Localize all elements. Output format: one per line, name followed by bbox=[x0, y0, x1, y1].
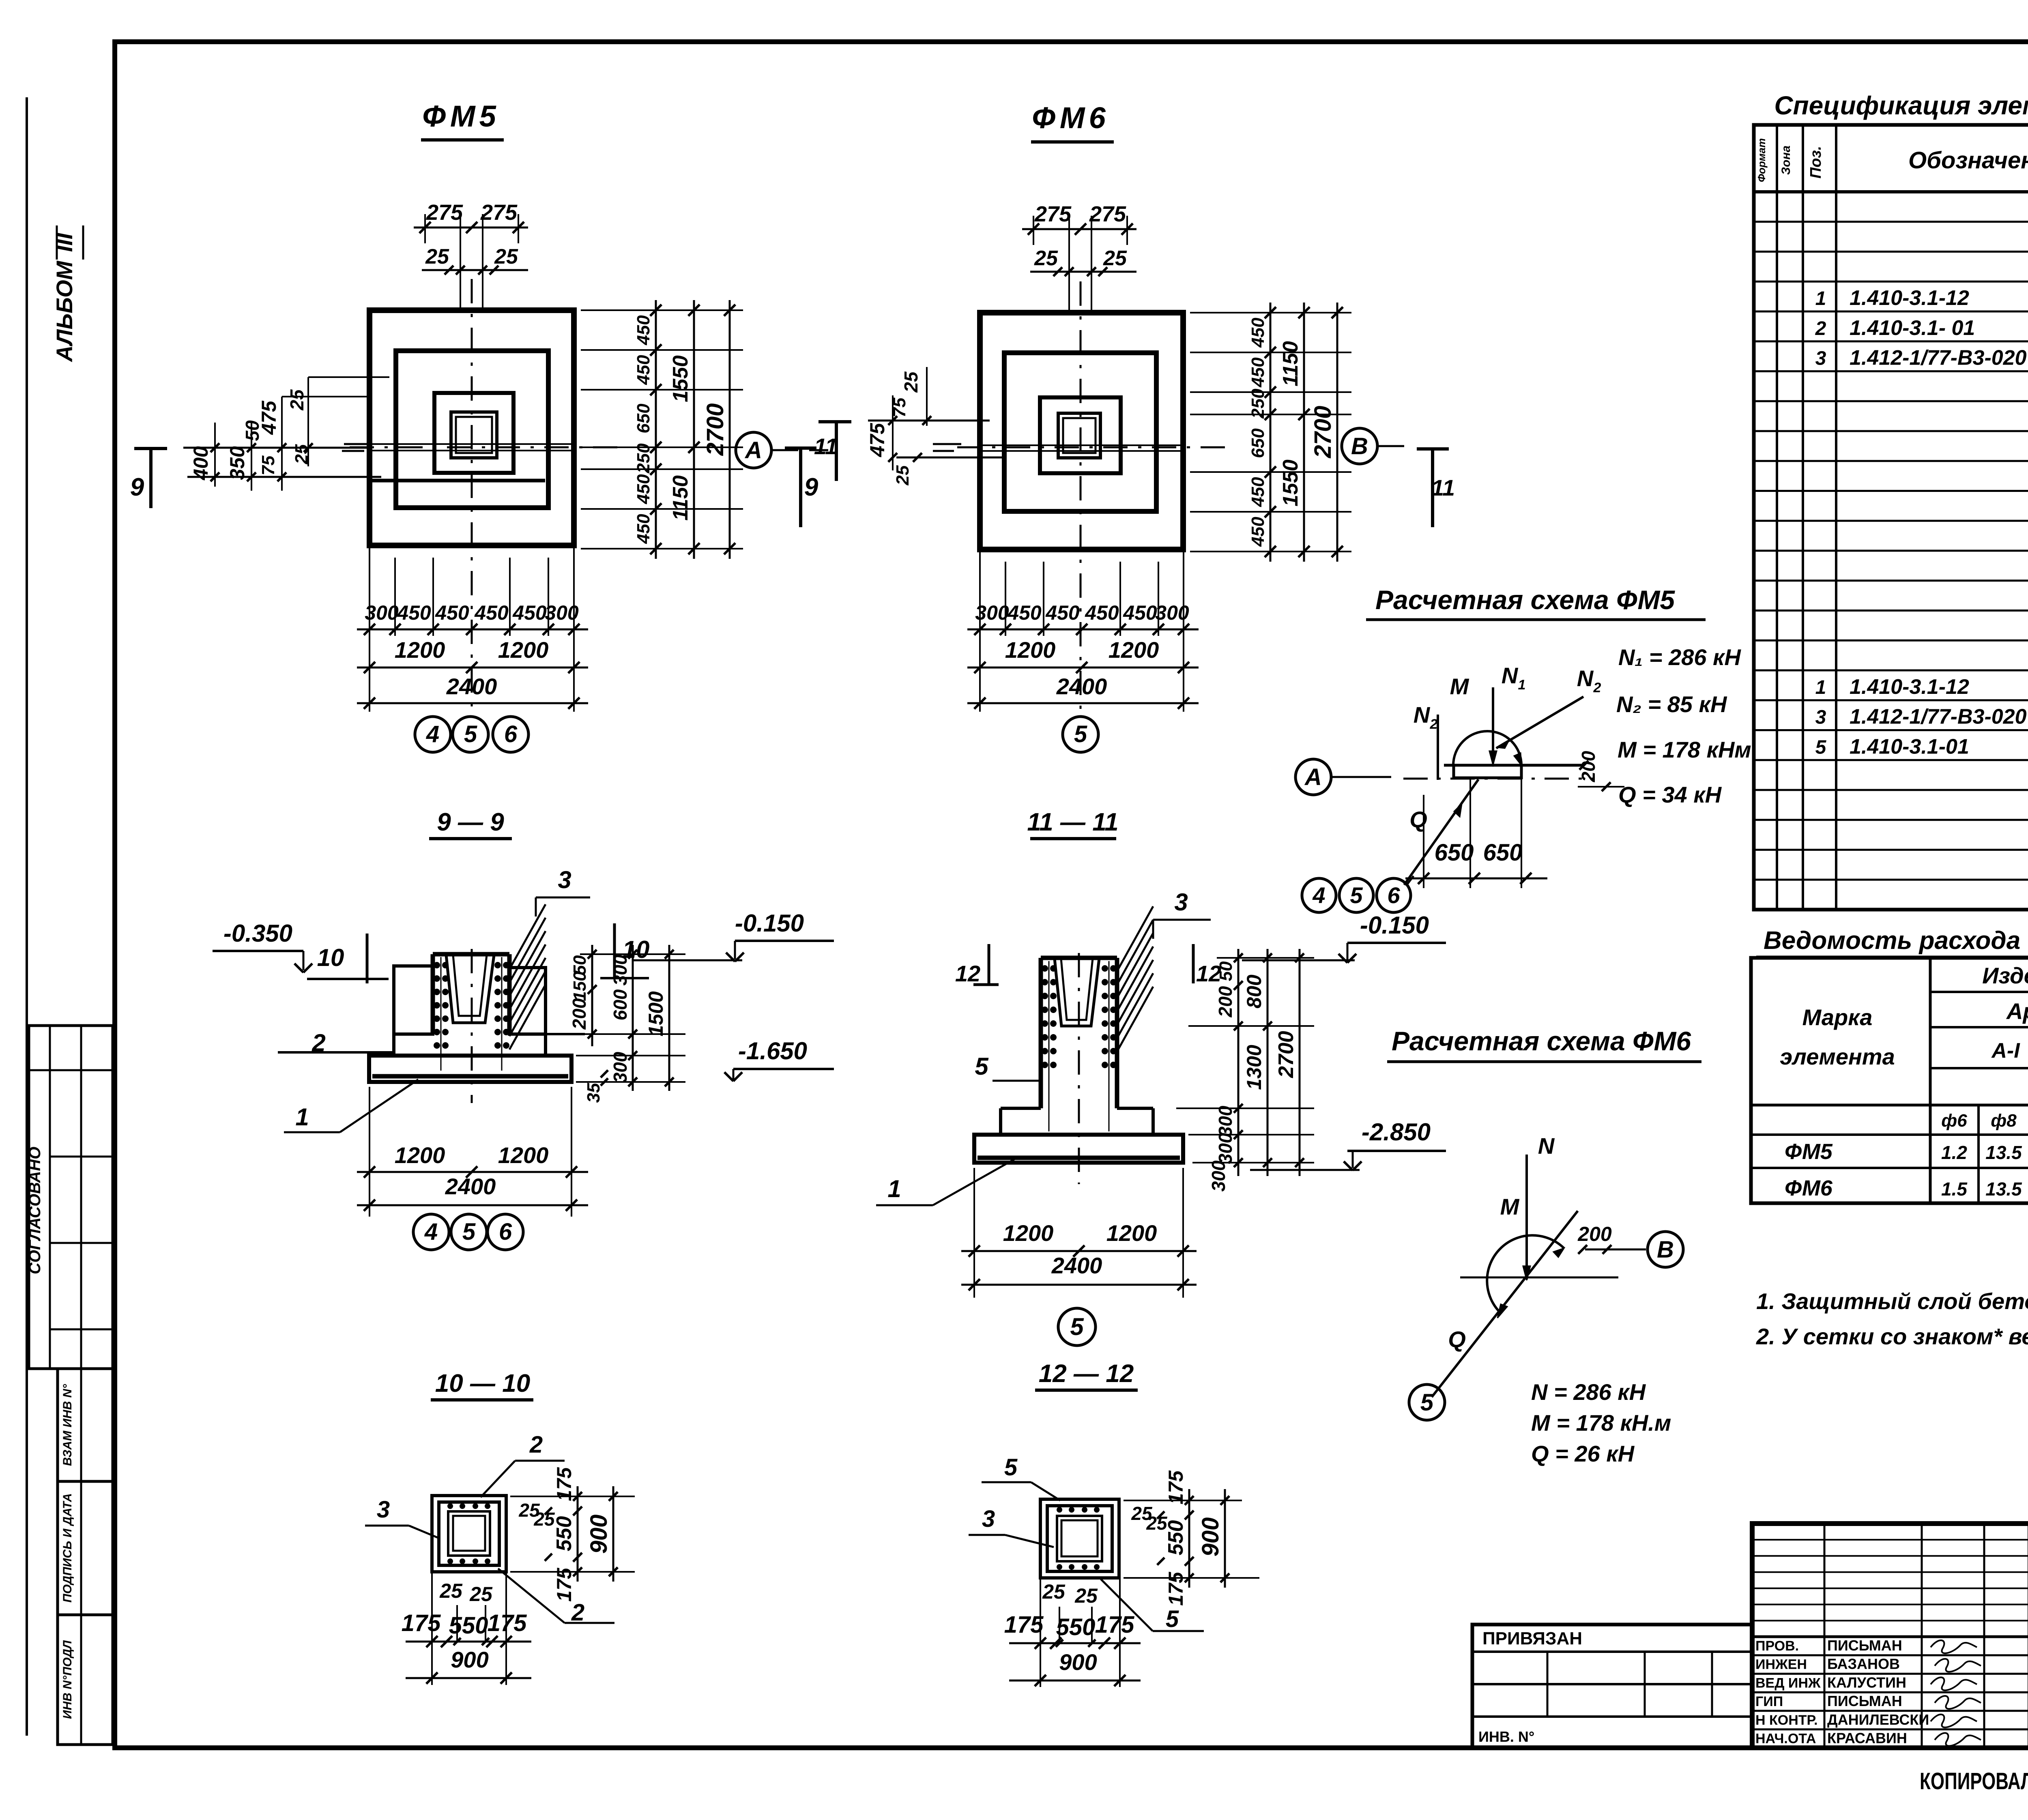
svg-text:6: 6 bbox=[499, 1219, 512, 1245]
svg-text:5: 5 bbox=[1074, 721, 1087, 747]
svg-text:300: 300 bbox=[610, 954, 631, 985]
svg-text:ПИСЬМАН: ПИСЬМАН bbox=[1827, 1637, 1902, 1654]
svg-text:1200: 1200 bbox=[395, 1142, 445, 1168]
svg-text:1300: 1300 bbox=[1243, 1045, 1265, 1090]
svg-text:1. Защитный слой бетона ни: 1. Защитный слой бетона нижних сеток- 35… bbox=[1756, 1288, 2028, 1314]
svg-text:ВЕД ИНЖ: ВЕД ИНЖ bbox=[1755, 1675, 1821, 1691]
svg-text:N: N bbox=[1502, 663, 1519, 688]
svg-text:175: 175 bbox=[402, 1610, 441, 1636]
svg-text:ф8: ф8 bbox=[1991, 1111, 2017, 1131]
svg-text:200: 200 bbox=[569, 998, 590, 1030]
svg-text:M = 178 кНм: M = 178 кНм bbox=[1618, 737, 1751, 762]
svg-text:25: 25 bbox=[425, 245, 449, 268]
svg-text:В: В bbox=[1657, 1236, 1674, 1263]
svg-text:КОПИРОВАЛ КОРШУНОВА 23091-ПЗ: КОПИРОВАЛ КОРШУНОВА 23091-ПЗ bbox=[1920, 1768, 2028, 1794]
svg-text:12 — 12: 12 — 12 bbox=[1039, 1360, 1134, 1388]
svg-text:ВЗАМ ИНВ N°: ВЗАМ ИНВ N° bbox=[61, 1384, 74, 1466]
svg-text:1: 1 bbox=[1815, 288, 1826, 309]
svg-text:2400: 2400 bbox=[1056, 674, 1107, 699]
svg-text:2: 2 bbox=[1430, 717, 1438, 732]
svg-text:5: 5 bbox=[462, 1219, 476, 1245]
svg-text:ФМ6: ФМ6 bbox=[1032, 101, 1109, 135]
svg-text:175: 175 bbox=[488, 1610, 527, 1636]
svg-text:M = 178 кН.м: M = 178 кН.м bbox=[1531, 1410, 1671, 1436]
svg-text:3: 3 bbox=[1174, 889, 1188, 916]
svg-text:1.2: 1.2 bbox=[1941, 1142, 1967, 1163]
svg-text:5: 5 bbox=[1166, 1606, 1179, 1632]
svg-text:4: 4 bbox=[1312, 882, 1325, 908]
svg-text:1150: 1150 bbox=[669, 475, 692, 521]
svg-text:250: 250 bbox=[1248, 388, 1268, 419]
svg-text:1200: 1200 bbox=[498, 1142, 549, 1168]
svg-text:300: 300 bbox=[1155, 601, 1189, 624]
svg-text:450: 450 bbox=[1248, 318, 1268, 348]
svg-text:2400: 2400 bbox=[446, 674, 497, 699]
svg-text:2: 2 bbox=[312, 1029, 325, 1056]
svg-text:1: 1 bbox=[295, 1103, 309, 1131]
svg-text:300: 300 bbox=[545, 601, 579, 624]
svg-text:900: 900 bbox=[1059, 1649, 1097, 1675]
svg-text:1.410-3.1-12: 1.410-3.1-12 bbox=[1850, 675, 1969, 699]
svg-text:475: 475 bbox=[866, 423, 889, 457]
svg-text:75: 75 bbox=[258, 455, 278, 475]
svg-text:450: 450 bbox=[634, 474, 653, 504]
svg-text:650: 650 bbox=[634, 403, 653, 434]
svg-text:Q = 34 кН: Q = 34 кН bbox=[1618, 782, 1722, 807]
svg-text:400: 400 bbox=[189, 446, 212, 481]
svg-text:175: 175 bbox=[1164, 1571, 1187, 1606]
svg-text:1550: 1550 bbox=[1279, 459, 1302, 507]
svg-text:элемента: элемента bbox=[1780, 1044, 1895, 1069]
svg-text:M: M bbox=[1450, 674, 1469, 699]
svg-text:25: 25 bbox=[1146, 1513, 1168, 1534]
svg-text:25: 25 bbox=[1074, 1584, 1098, 1607]
svg-text:9: 9 bbox=[130, 473, 144, 501]
svg-text:БАЗАНОВ: БАЗАНОВ bbox=[1827, 1656, 1900, 1672]
svg-text:III: III bbox=[52, 232, 77, 252]
svg-text:1200: 1200 bbox=[1005, 637, 1056, 663]
svg-text:300: 300 bbox=[1215, 1105, 1236, 1137]
svg-text:9: 9 bbox=[804, 473, 819, 501]
svg-text:200: 200 bbox=[1215, 986, 1236, 1017]
svg-text:АЛЬБОМ: АЛЬБОМ bbox=[52, 260, 77, 363]
svg-text:Спецификация элементов монол: Спецификация элементов монолитных фундам… bbox=[1774, 91, 2028, 120]
svg-text:Расчетная схема ФМ6: Расчетная схема ФМ6 bbox=[1392, 1026, 1691, 1056]
svg-text:N₂ = 85 кН: N₂ = 85 кН bbox=[1616, 691, 1727, 717]
svg-text:275: 275 bbox=[480, 200, 518, 225]
svg-text:450: 450 bbox=[1085, 601, 1119, 624]
svg-text:1200: 1200 bbox=[395, 637, 445, 663]
svg-text:5: 5 bbox=[1070, 1313, 1084, 1340]
svg-text:-0.150: -0.150 bbox=[1360, 912, 1429, 939]
svg-text:25: 25 bbox=[1103, 247, 1127, 270]
svg-text:25: 25 bbox=[439, 1580, 463, 1602]
svg-text:550: 550 bbox=[449, 1612, 488, 1639]
svg-text:275: 275 bbox=[1034, 202, 1072, 226]
svg-text:1150: 1150 bbox=[1279, 341, 1302, 386]
svg-text:ПИСЬМАН: ПИСЬМАН bbox=[1827, 1693, 1902, 1709]
svg-text:11: 11 bbox=[1431, 475, 1455, 500]
svg-text:175: 175 bbox=[1164, 1470, 1187, 1505]
svg-text:Арматура класса: Арматура класса bbox=[2006, 998, 2028, 1024]
svg-text:10 — 10: 10 — 10 bbox=[435, 1369, 530, 1397]
svg-text:Поз.: Поз. bbox=[1807, 146, 1824, 179]
svg-text:1.410-3.1-01: 1.410-3.1-01 bbox=[1850, 735, 1969, 758]
svg-text:25: 25 bbox=[292, 444, 312, 464]
svg-text:450: 450 bbox=[397, 601, 431, 624]
svg-text:550: 550 bbox=[1056, 1614, 1096, 1640]
svg-text:9 — 9: 9 — 9 bbox=[437, 808, 504, 836]
svg-text:1200: 1200 bbox=[1106, 1220, 1157, 1246]
svg-text:11 — 11: 11 — 11 bbox=[1027, 808, 1118, 836]
svg-text:3: 3 bbox=[1815, 348, 1826, 369]
svg-text:3: 3 bbox=[982, 1506, 995, 1532]
svg-text:Ведомость расхода стали на эл: Ведомость расхода стали на элемент, кг. bbox=[1764, 927, 2028, 955]
svg-text:475: 475 bbox=[258, 400, 280, 435]
svg-text:ГИП: ГИП bbox=[1755, 1694, 1783, 1709]
svg-text:1.5: 1.5 bbox=[1941, 1178, 1968, 1200]
svg-text:200: 200 bbox=[1577, 1223, 1612, 1245]
svg-text:2: 2 bbox=[1815, 318, 1826, 339]
svg-text:450: 450 bbox=[634, 315, 653, 346]
svg-text:450: 450 bbox=[1248, 477, 1268, 507]
svg-text:ДАНИЛЕВСКИ: ДАНИЛЕВСКИ bbox=[1827, 1711, 1929, 1728]
svg-text:900: 900 bbox=[1197, 1517, 1224, 1557]
svg-text:5: 5 bbox=[975, 1053, 989, 1080]
svg-text:1200: 1200 bbox=[1109, 637, 1159, 663]
svg-text:450: 450 bbox=[1123, 601, 1157, 624]
svg-text:300: 300 bbox=[1215, 1133, 1236, 1164]
svg-text:450: 450 bbox=[512, 601, 547, 624]
svg-text:275: 275 bbox=[1089, 202, 1126, 226]
svg-text:Обозначение: Обозначение bbox=[1908, 147, 2028, 174]
svg-text:А-I: А-I bbox=[1991, 1039, 2020, 1062]
svg-text:1: 1 bbox=[1815, 677, 1826, 698]
svg-text:450: 450 bbox=[634, 514, 653, 544]
svg-text:5: 5 bbox=[464, 721, 477, 747]
svg-text:300: 300 bbox=[1208, 1160, 1229, 1191]
svg-text:275: 275 bbox=[426, 200, 463, 225]
svg-text:СОГЛАСОВАНО: СОГЛАСОВАНО bbox=[26, 1147, 44, 1275]
svg-text:2: 2 bbox=[1593, 680, 1601, 695]
svg-text:450: 450 bbox=[1248, 517, 1268, 547]
svg-text:ПРОВ.: ПРОВ. bbox=[1755, 1638, 1799, 1654]
svg-text:2: 2 bbox=[529, 1432, 543, 1458]
svg-text:450: 450 bbox=[435, 601, 469, 624]
svg-text:450: 450 bbox=[1248, 357, 1268, 388]
svg-text:1.412-1/77-В3-020: 1.412-1/77-В3-020 bbox=[1850, 705, 2027, 729]
svg-text:Q = 26 кН: Q = 26 кН bbox=[1531, 1441, 1635, 1466]
svg-text:Формат: Формат bbox=[1755, 138, 1768, 182]
svg-text:-0.350: -0.350 bbox=[223, 920, 292, 947]
svg-text:Расчетная схема ФМ5: Расчетная схема ФМ5 bbox=[1375, 585, 1675, 615]
svg-text:5: 5 bbox=[1004, 1454, 1018, 1481]
svg-text:175: 175 bbox=[553, 1467, 576, 1501]
svg-text:Q: Q bbox=[1409, 807, 1427, 832]
svg-text:350: 350 bbox=[226, 446, 249, 480]
svg-text:ФМ6: ФМ6 bbox=[1785, 1176, 1833, 1200]
svg-text:450: 450 bbox=[634, 355, 653, 385]
svg-text:НАЧ.ОТА: НАЧ.ОТА bbox=[1755, 1731, 1816, 1747]
svg-text:1: 1 bbox=[887, 1175, 901, 1202]
svg-text:11: 11 bbox=[814, 434, 838, 459]
svg-text:1.412-1/77-В3-020: 1.412-1/77-В3-020 bbox=[1850, 346, 2027, 370]
svg-text:13.5: 13.5 bbox=[1985, 1178, 2022, 1200]
svg-text:N: N bbox=[1538, 1133, 1555, 1159]
svg-text:5: 5 bbox=[1815, 736, 1827, 758]
svg-text:N: N bbox=[1414, 702, 1431, 728]
svg-text:N: N bbox=[1577, 665, 1594, 691]
svg-text:650: 650 bbox=[1248, 428, 1268, 458]
svg-text:M: M bbox=[1500, 1194, 1520, 1219]
svg-text:5: 5 bbox=[1350, 882, 1363, 908]
svg-text:150: 150 bbox=[570, 971, 590, 1001]
svg-text:А: А bbox=[744, 437, 762, 464]
svg-text:550: 550 bbox=[552, 1516, 576, 1552]
svg-text:2: 2 bbox=[571, 1599, 584, 1626]
svg-text:1200: 1200 bbox=[1003, 1220, 1054, 1246]
svg-text:N = 286 кН: N = 286 кН bbox=[1531, 1379, 1646, 1405]
svg-text:50: 50 bbox=[1216, 961, 1236, 981]
svg-text:1200: 1200 bbox=[498, 637, 549, 663]
svg-text:ФМ5: ФМ5 bbox=[422, 99, 500, 133]
svg-text:Зона: Зона bbox=[1779, 146, 1793, 175]
svg-text:25: 25 bbox=[900, 371, 922, 393]
svg-text:1550: 1550 bbox=[669, 355, 692, 402]
svg-text:КАЛУСТИН: КАЛУСТИН bbox=[1827, 1674, 1906, 1691]
svg-text:300: 300 bbox=[975, 601, 1009, 624]
svg-text:2400: 2400 bbox=[445, 1174, 496, 1199]
svg-text:1500: 1500 bbox=[644, 991, 667, 1036]
svg-text:3: 3 bbox=[558, 866, 571, 893]
svg-text:6: 6 bbox=[1387, 882, 1400, 908]
svg-text:Q: Q bbox=[1448, 1326, 1466, 1352]
svg-text:Изделия арматурные: Изделия арматурные bbox=[1982, 963, 2028, 988]
svg-text:250: 250 bbox=[634, 443, 653, 474]
svg-text:2. У сетки со знаком* верхни: 2. У сетки со знаком* верхний стержень с… bbox=[1756, 1324, 2028, 1349]
svg-text:-1.650: -1.650 bbox=[738, 1037, 807, 1065]
svg-text:175: 175 bbox=[1004, 1612, 1044, 1638]
svg-text:В: В bbox=[1351, 433, 1368, 459]
svg-text:ПРИВЯЗАН: ПРИВЯЗАН bbox=[1482, 1629, 1582, 1648]
svg-text:4: 4 bbox=[426, 721, 439, 747]
svg-text:25: 25 bbox=[286, 389, 307, 411]
svg-text:450: 450 bbox=[1045, 601, 1080, 624]
svg-text:175: 175 bbox=[553, 1567, 576, 1602]
svg-text:1: 1 bbox=[1518, 677, 1526, 693]
svg-text:10: 10 bbox=[317, 944, 344, 971]
svg-text:35: 35 bbox=[584, 1083, 604, 1103]
svg-text:5: 5 bbox=[1420, 1389, 1434, 1416]
svg-text:ИНВ. N°: ИНВ. N° bbox=[1478, 1728, 1534, 1745]
svg-text:3: 3 bbox=[377, 1496, 390, 1523]
svg-text:650: 650 bbox=[1435, 839, 1474, 866]
svg-text:25: 25 bbox=[469, 1583, 493, 1605]
svg-text:175: 175 bbox=[1095, 1612, 1135, 1638]
svg-text:2700: 2700 bbox=[1310, 406, 1336, 458]
svg-text:13.5: 13.5 bbox=[1985, 1142, 2022, 1163]
svg-text:800: 800 bbox=[1243, 974, 1265, 1009]
svg-text:4: 4 bbox=[424, 1219, 438, 1245]
svg-text:КРАСАВИН: КРАСАВИН bbox=[1827, 1730, 1907, 1747]
svg-text:900: 900 bbox=[451, 1647, 488, 1672]
svg-text:А: А bbox=[1304, 764, 1322, 790]
svg-text:-0.150: -0.150 bbox=[735, 910, 804, 937]
svg-text:450: 450 bbox=[474, 601, 509, 624]
svg-text:ФМ5: ФМ5 bbox=[1785, 1140, 1833, 1164]
svg-text:-2.850: -2.850 bbox=[1362, 1118, 1431, 1146]
svg-text:25: 25 bbox=[1034, 247, 1058, 270]
svg-text:25: 25 bbox=[494, 245, 518, 268]
svg-text:12: 12 bbox=[955, 961, 980, 986]
svg-text:550: 550 bbox=[1164, 1520, 1188, 1556]
svg-text:ф6: ф6 bbox=[1941, 1111, 1967, 1131]
svg-text:2400: 2400 bbox=[1051, 1253, 1102, 1278]
svg-text:900: 900 bbox=[586, 1515, 612, 1554]
svg-text:25: 25 bbox=[533, 1509, 555, 1530]
svg-text:2700: 2700 bbox=[702, 403, 728, 456]
svg-text:300: 300 bbox=[365, 601, 399, 624]
svg-text:1.410-3.1-12: 1.410-3.1-12 bbox=[1850, 286, 1969, 310]
svg-text:ИНЖЕН: ИНЖЕН bbox=[1755, 1657, 1807, 1672]
svg-text:75: 75 bbox=[889, 397, 909, 417]
svg-text:600: 600 bbox=[610, 989, 631, 1020]
svg-text:25: 25 bbox=[1042, 1580, 1066, 1603]
svg-text:450: 450 bbox=[1007, 601, 1042, 624]
svg-text:N₁ = 286 кН: N₁ = 286 кН bbox=[1618, 644, 1741, 670]
svg-text:ИНВ N°ПОДЛ: ИНВ N°ПОДЛ bbox=[61, 1640, 74, 1719]
svg-text:2700: 2700 bbox=[1274, 1031, 1298, 1078]
svg-text:300: 300 bbox=[610, 1052, 631, 1083]
svg-text:Н КОНТР.: Н КОНТР. bbox=[1755, 1713, 1818, 1728]
svg-text:1.410-3.1- 01: 1.410-3.1- 01 bbox=[1850, 316, 1975, 340]
svg-text:3: 3 bbox=[1815, 707, 1826, 728]
svg-text:Марка: Марка bbox=[1802, 1004, 1873, 1030]
svg-text:ПОДПИСЬ И ДАТА: ПОДПИСЬ И ДАТА bbox=[61, 1493, 74, 1603]
svg-text:25: 25 bbox=[893, 465, 913, 485]
svg-text:6: 6 bbox=[504, 721, 518, 747]
svg-text:650: 650 bbox=[1483, 839, 1523, 866]
